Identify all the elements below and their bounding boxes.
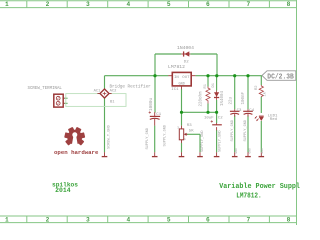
svg-text:22u: 22u [229,96,233,104]
svg-text:SCREW_TERMINAL: SCREW_TERMINAL [28,87,63,91]
svg-text:8: 8 [287,1,291,8]
wire R1 top stub [207,76,209,87]
LED LED1 [255,116,264,121]
frame bottom strip [0,216,297,223]
svg-text:1N4004: 1N4004 [177,45,194,51]
bridge rectifier B1 diamond [97,89,111,98]
svg-text:open hardware: open hardware [54,149,99,156]
op-amp: voltage regulator IC1 LM7812 [168,72,195,89]
svg-text:SCREW_T_GND: SCREW_T_GND [107,125,111,149]
wire loop left vertical [154,54,156,76]
svg-text:2014: 2014 [55,187,71,194]
svg-text:10uF: 10uF [204,117,214,121]
node gnd-branch/R1 junction [206,111,209,114]
node gnd-branch/IC junction [180,111,183,114]
svg-text:2: 2 [46,217,50,224]
capacitor C2 (10uF polarized) [211,120,222,130]
wire wiper down to GND [199,134,201,152]
svg-text:SUPPLY_GND: SUPPLY_GND [231,120,235,142]
svg-text:6: 6 [206,217,210,224]
frame bottom numbers [5,217,291,224]
ground (pot) [179,152,185,156]
frame top strip [0,1,297,8]
svg-text:C2: C2 [218,117,223,121]
node bus/R1 junction [206,74,209,77]
wire loop top right segment [190,53,217,55]
svg-text:DC/2.3B: DC/2.3B [267,74,294,82]
wire D1 top stub [216,76,218,91]
svg-text:5K: 5K [189,130,194,134]
wire LED branch drop [260,76,262,85]
wire pot wiper right [187,133,200,135]
frame right border [296,0,298,225]
svg-text:D2: D2 [184,61,189,65]
wire D1 bottom stub [216,100,218,112]
wire bridge bottom to GND [104,98,106,152]
svg-text:D1: D1 [212,82,216,87]
svg-text:LM7812: LM7812 [168,64,185,70]
svg-text:B1: B1 [110,100,115,104]
bridge rectifier pale body [66,94,126,107]
wire C2 to GND [216,130,218,152]
node bus/loop/C1 junction [153,74,156,77]
svg-text:5: 5 [167,217,171,224]
svg-text:C3: C3 [237,109,242,113]
svg-text:GND: GND [178,82,184,86]
capacitor C4 (100nF) [243,109,253,116]
junction dots [153,74,249,114]
svg-text:R3: R3 [187,124,192,128]
svg-text:GND: GND [235,148,238,154]
wire C1 drop [154,76,156,113]
svg-text:6: 6 [206,1,210,8]
svg-text:1: 1 [5,1,9,8]
ground (LED) [259,152,265,156]
open hardware logo (OSHW gear) [64,127,85,147]
svg-text:IC1: IC1 [171,88,179,92]
svg-text:Variable Power Supply: Variable Power Supply [219,183,300,191]
wire C4 to GND [247,116,249,153]
wires (green) [105,54,263,152]
wire bus right: IC OUT to flag [195,75,262,77]
svg-text:4: 4 [126,217,130,224]
svg-text:R1: R1 [204,83,208,88]
svg-text:SUPPLY_GND: SUPPLY_GND [146,128,150,150]
wire C2 drop [216,112,218,123]
svg-text:SUPPLY_GND: SUPPLY_GND [244,120,248,142]
wire gnd branch horizontal [182,111,217,113]
node bus/loop/D1 junction [215,74,218,77]
svg-text:AC2: AC2 [110,90,118,94]
svg-text:SUPPLY_GND: SUPPLY_GND [219,130,223,152]
svg-text:7: 7 [246,217,250,224]
wire bridge top drop [104,76,106,90]
svg-text:SUPPLY_GND: SUPPLY_GND [201,130,205,152]
svg-text:GND: GND [261,148,264,154]
net flag DC/2.3B [262,71,296,82]
svg-text:C1: C1 [156,113,161,117]
wire R2 to LED [260,97,262,113]
svg-text:4: 4 [126,1,130,8]
svg-text:Red: Red [270,117,278,122]
wire loop right vertical [216,54,218,76]
ground (bridge) [102,152,108,156]
resistor R2 (vertical zigzag, LED series) [259,85,263,97]
svg-text:1: 1 [5,217,9,224]
svg-text:LM7812.: LM7812. [236,192,262,200]
resistor R1 220ohm (vertical zigzag) [206,87,210,104]
ground symbols [102,152,264,156]
wire C1 to GND [154,126,156,153]
svg-text:1N4004: 1N4004 [221,90,225,106]
wire C4 drop [247,76,249,110]
wire loop top left segment [155,53,181,55]
node bus/C4 junction [246,74,249,77]
svg-text:7: 7 [246,1,250,8]
node bus/C3 junction [233,74,236,77]
capacitor C3 (22u) [230,109,240,116]
svg-text:AC1: AC1 [94,89,102,93]
svg-text:IN: IN [174,76,179,80]
screw terminal X1 [54,94,68,107]
frame top numbers [5,1,291,8]
wire pot bottom to GND [181,143,183,152]
svg-text:SUPPLY_GND: SUPPLY_GND [163,125,167,147]
ground (C1) [152,152,158,156]
svg-text:1k: 1k [263,91,268,96]
svg-text:100nF: 100nF [242,91,246,104]
potentiometer R3 5K [179,126,187,143]
wire LED to GND [260,121,262,152]
svg-text:220ohm: 220ohm [199,91,204,107]
svg-text:C4: C4 [249,109,254,113]
svg-text:3: 3 [86,217,90,224]
svg-text:1000u: 1000u [149,97,154,111]
svg-text:5: 5 [167,1,171,8]
svg-text:GND: GND [248,148,251,154]
ground (C4) [245,152,251,156]
ground (C3) [232,152,238,156]
svg-text:1: 1 [184,138,186,141]
wire IC GND down [181,89,183,126]
capacitor C1 (1000u polarized) [149,111,161,125]
wire R1 bottom stub [207,104,209,113]
wire bus left: bridge to IC IN [105,75,169,77]
svg-text:OUT: OUT [182,76,190,80]
svg-text:3: 3 [86,1,90,8]
svg-text:3: 3 [177,127,179,130]
svg-text:R2: R2 [255,85,259,90]
svg-text:Bridge Rectifier: Bridge Rectifier [110,85,152,90]
wire C3 drop [234,76,236,110]
ground (wiper) [197,152,203,156]
svg-text:8: 8 [287,217,291,224]
node gnd-branch/C2 junction [215,111,218,114]
ground (C2) [214,152,220,156]
wire C3 to GND [234,116,236,153]
svg-text:2: 2 [46,1,50,8]
diode D2 (across regulator) [181,51,190,56]
diode D1 (vertical) [214,91,219,101]
